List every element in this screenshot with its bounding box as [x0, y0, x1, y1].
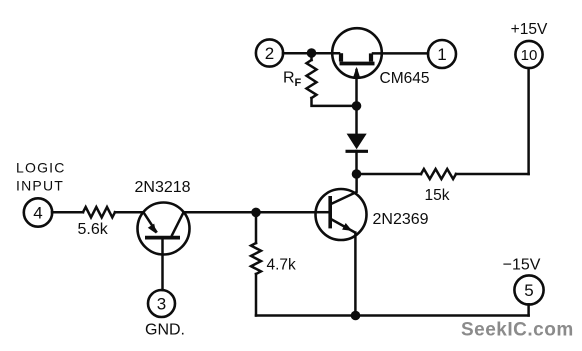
svg-text:GND.: GND. [145, 322, 185, 339]
svg-text:SeekIC.com: SeekIC.com [461, 320, 574, 341]
svg-text:INPUT: INPUT [16, 177, 64, 193]
svg-text:CM645: CM645 [380, 70, 430, 87]
svg-text:5.6k: 5.6k [78, 221, 109, 238]
svg-text:10: 10 [521, 47, 538, 64]
svg-text:2N3218: 2N3218 [135, 179, 191, 196]
svg-text:LOGIC: LOGIC [16, 159, 66, 175]
svg-text:4.7k: 4.7k [267, 257, 297, 274]
svg-text:1: 1 [437, 45, 446, 64]
svg-text:4: 4 [33, 204, 42, 223]
svg-text:2N2369: 2N2369 [373, 211, 429, 228]
svg-text:5: 5 [524, 281, 533, 300]
svg-text:R: R [283, 69, 295, 86]
svg-text:3: 3 [157, 295, 166, 314]
svg-text:−15V: −15V [503, 257, 541, 274]
svg-text:2: 2 [265, 44, 274, 63]
svg-text:15k: 15k [425, 187, 450, 204]
svg-text:+15V: +15V [511, 21, 548, 38]
svg-text:F: F [295, 77, 302, 89]
